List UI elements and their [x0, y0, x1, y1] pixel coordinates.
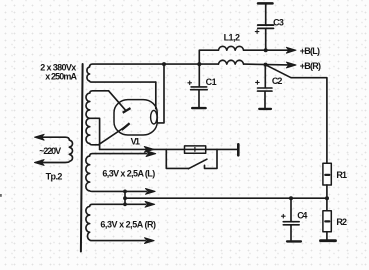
wire R2 to ground	[326, 232, 328, 240]
wire up to L1	[199, 50, 218, 64]
node C1/L1 junction	[197, 62, 201, 66]
arrow +B(L)	[286, 47, 296, 53]
plus C1	[188, 81, 192, 85]
svg-text:C3: C3	[273, 17, 284, 27]
wire R1 to R2	[326, 185, 328, 211]
HT center tap	[90, 118, 100, 149]
svg-text:Tp.2: Tp.2	[46, 171, 63, 181]
wire heater mid to R junction	[125, 197, 327, 199]
svg-text:R1: R1	[336, 170, 347, 180]
wire filament bottom drop	[155, 82, 157, 109]
capacitor C1	[198, 64, 200, 86]
capacitor C2	[264, 65, 266, 88]
plate bar upper	[123, 108, 131, 113]
primary winding ~220V	[36, 137, 73, 162]
inductor L1	[218, 46, 243, 50]
capacitor C3	[265, 29, 267, 50]
svg-text:6,3V x 2,5A (L): 6,3V x 2,5A (L)	[102, 168, 155, 178]
ground C3	[258, 2, 273, 5]
wire L2 to +B(R)	[244, 63, 288, 66]
ground C4	[287, 240, 301, 242]
resistor R1	[323, 163, 331, 185]
resistor R2	[323, 211, 331, 232]
arrow 6,3V(R) bottom	[145, 238, 155, 244]
svg-text:R2: R2	[336, 217, 347, 227]
fuse	[185, 146, 206, 153]
svg-text:C4: C4	[297, 210, 307, 220]
svg-text:+B(L): +B(L)	[300, 46, 320, 56]
filament ellipse	[151, 110, 157, 124]
switch	[166, 149, 188, 168]
arrow on center tap wire	[144, 147, 154, 153]
heater winding 6,3V (R)	[86, 204, 146, 240]
HT winding 2x380V	[86, 91, 109, 145]
capacitor C4	[290, 198, 292, 221]
heater winding 6,3V (L)	[86, 154, 147, 192]
node C3 junction	[264, 48, 268, 52]
arrow +B(R)	[286, 62, 296, 68]
svg-text:V1: V1	[131, 136, 140, 146]
plus C3	[255, 30, 259, 34]
node C2 junction	[264, 63, 268, 67]
plus C2	[256, 81, 260, 85]
svg-text:~220V: ~220V	[39, 146, 61, 156]
terminal bar	[237, 144, 240, 155]
primary top arrow	[35, 134, 45, 140]
primary bottom arrow	[35, 160, 45, 166]
svg-text:L1,2: L1,2	[224, 32, 240, 42]
arrow 6,3V(L) top	[146, 151, 156, 157]
ground R2	[321, 239, 336, 242]
plate bar lower	[122, 123, 130, 130]
filament winding (top secondary)	[87, 64, 218, 82]
node filament-top junction	[162, 62, 166, 66]
svg-text:C1: C1	[206, 77, 217, 87]
svg-text:x 250mA: x 250mA	[45, 72, 77, 82]
ground C1	[192, 107, 205, 109]
scan speck at left edge	[0, 194, 2, 197]
wire +B(R) diagonal to R1	[267, 65, 327, 163]
svg-text:6,3V x 2,5A (R): 6,3V x 2,5A (R)	[100, 220, 156, 230]
arrow 6,3V(R) top	[145, 201, 155, 207]
node R junction	[325, 196, 329, 200]
inductor L2	[218, 60, 243, 64]
svg-text:+B(R): +B(R)	[300, 61, 321, 71]
arrow 6,3V(L) bottom	[146, 189, 156, 195]
tube V1 envelope	[114, 100, 157, 135]
transformer core	[81, 64, 83, 252]
wire L1 to +B(L)	[244, 49, 288, 51]
heater tie vertical	[124, 191, 126, 204]
wire filament top drop from junction	[157, 64, 164, 123]
plus C4	[282, 214, 286, 218]
anode lead lower	[98, 127, 125, 145]
svg-text:C2: C2	[272, 76, 283, 86]
ground C2	[259, 108, 271, 110]
wire HT center tap to fuse	[100, 148, 238, 150]
anode lead upper	[109, 91, 126, 110]
